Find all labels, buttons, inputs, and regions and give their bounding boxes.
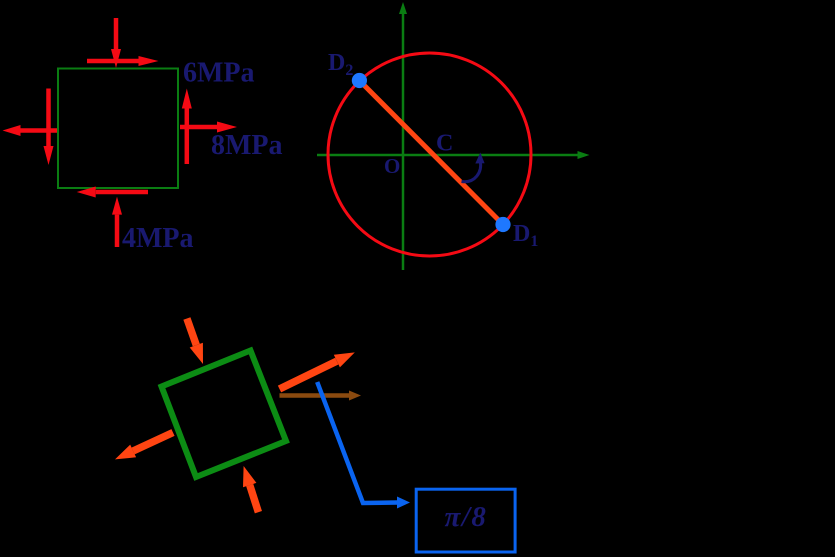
svg-text:4MPa: 4MPa [122, 223, 194, 254]
label O [384, 154, 400, 178]
Mohr circle [328, 53, 531, 256]
svg-text:C: C [436, 131, 453, 157]
label pi/8 [445, 501, 488, 533]
arrow principal tension up-right [280, 352, 355, 389]
svg-text:π/8: π/8 [445, 501, 488, 533]
label 8MPa [211, 130, 283, 161]
arrow sigma-x right pointing right [180, 122, 237, 133]
pointer line to angle box [317, 382, 410, 509]
arrow tau right pointing up [182, 89, 192, 165]
label 6MPa [183, 58, 255, 89]
diameter line D2-D1 [359, 81, 503, 225]
angle value box [416, 489, 515, 552]
label D1 [513, 221, 538, 250]
arrow sigma-y top pointing down [111, 18, 121, 68]
arrow sigma-x left pointing left [3, 125, 58, 136]
arrow tau left pointing down [44, 89, 54, 166]
Mohr circle horizontal axis [317, 151, 590, 159]
arrow tau top pointing right [87, 56, 159, 66]
point D1 [495, 217, 510, 232]
stress element square [58, 69, 178, 189]
label C [436, 131, 453, 157]
arrow principal tension down-left [115, 433, 173, 460]
angle arc arrow at C [462, 153, 485, 182]
svg-text:8MPa: 8MPa [211, 130, 283, 161]
label D2 [328, 50, 353, 79]
arrow compression into top-left edge [187, 319, 203, 365]
svg-text:O: O [384, 154, 400, 178]
arrow compression into bottom-right edge [243, 466, 258, 512]
point D2 [352, 73, 367, 88]
label 4MPa [122, 223, 194, 254]
Mohr circle vertical axis [399, 2, 407, 270]
rotated stress element square [162, 351, 287, 478]
svg-text:6MPa: 6MPa [183, 58, 255, 89]
arrow tau bottom pointing left [77, 187, 148, 198]
arrow sigma-y bottom pointing up [112, 197, 122, 247]
reference x-axis arrow brown [280, 391, 362, 401]
